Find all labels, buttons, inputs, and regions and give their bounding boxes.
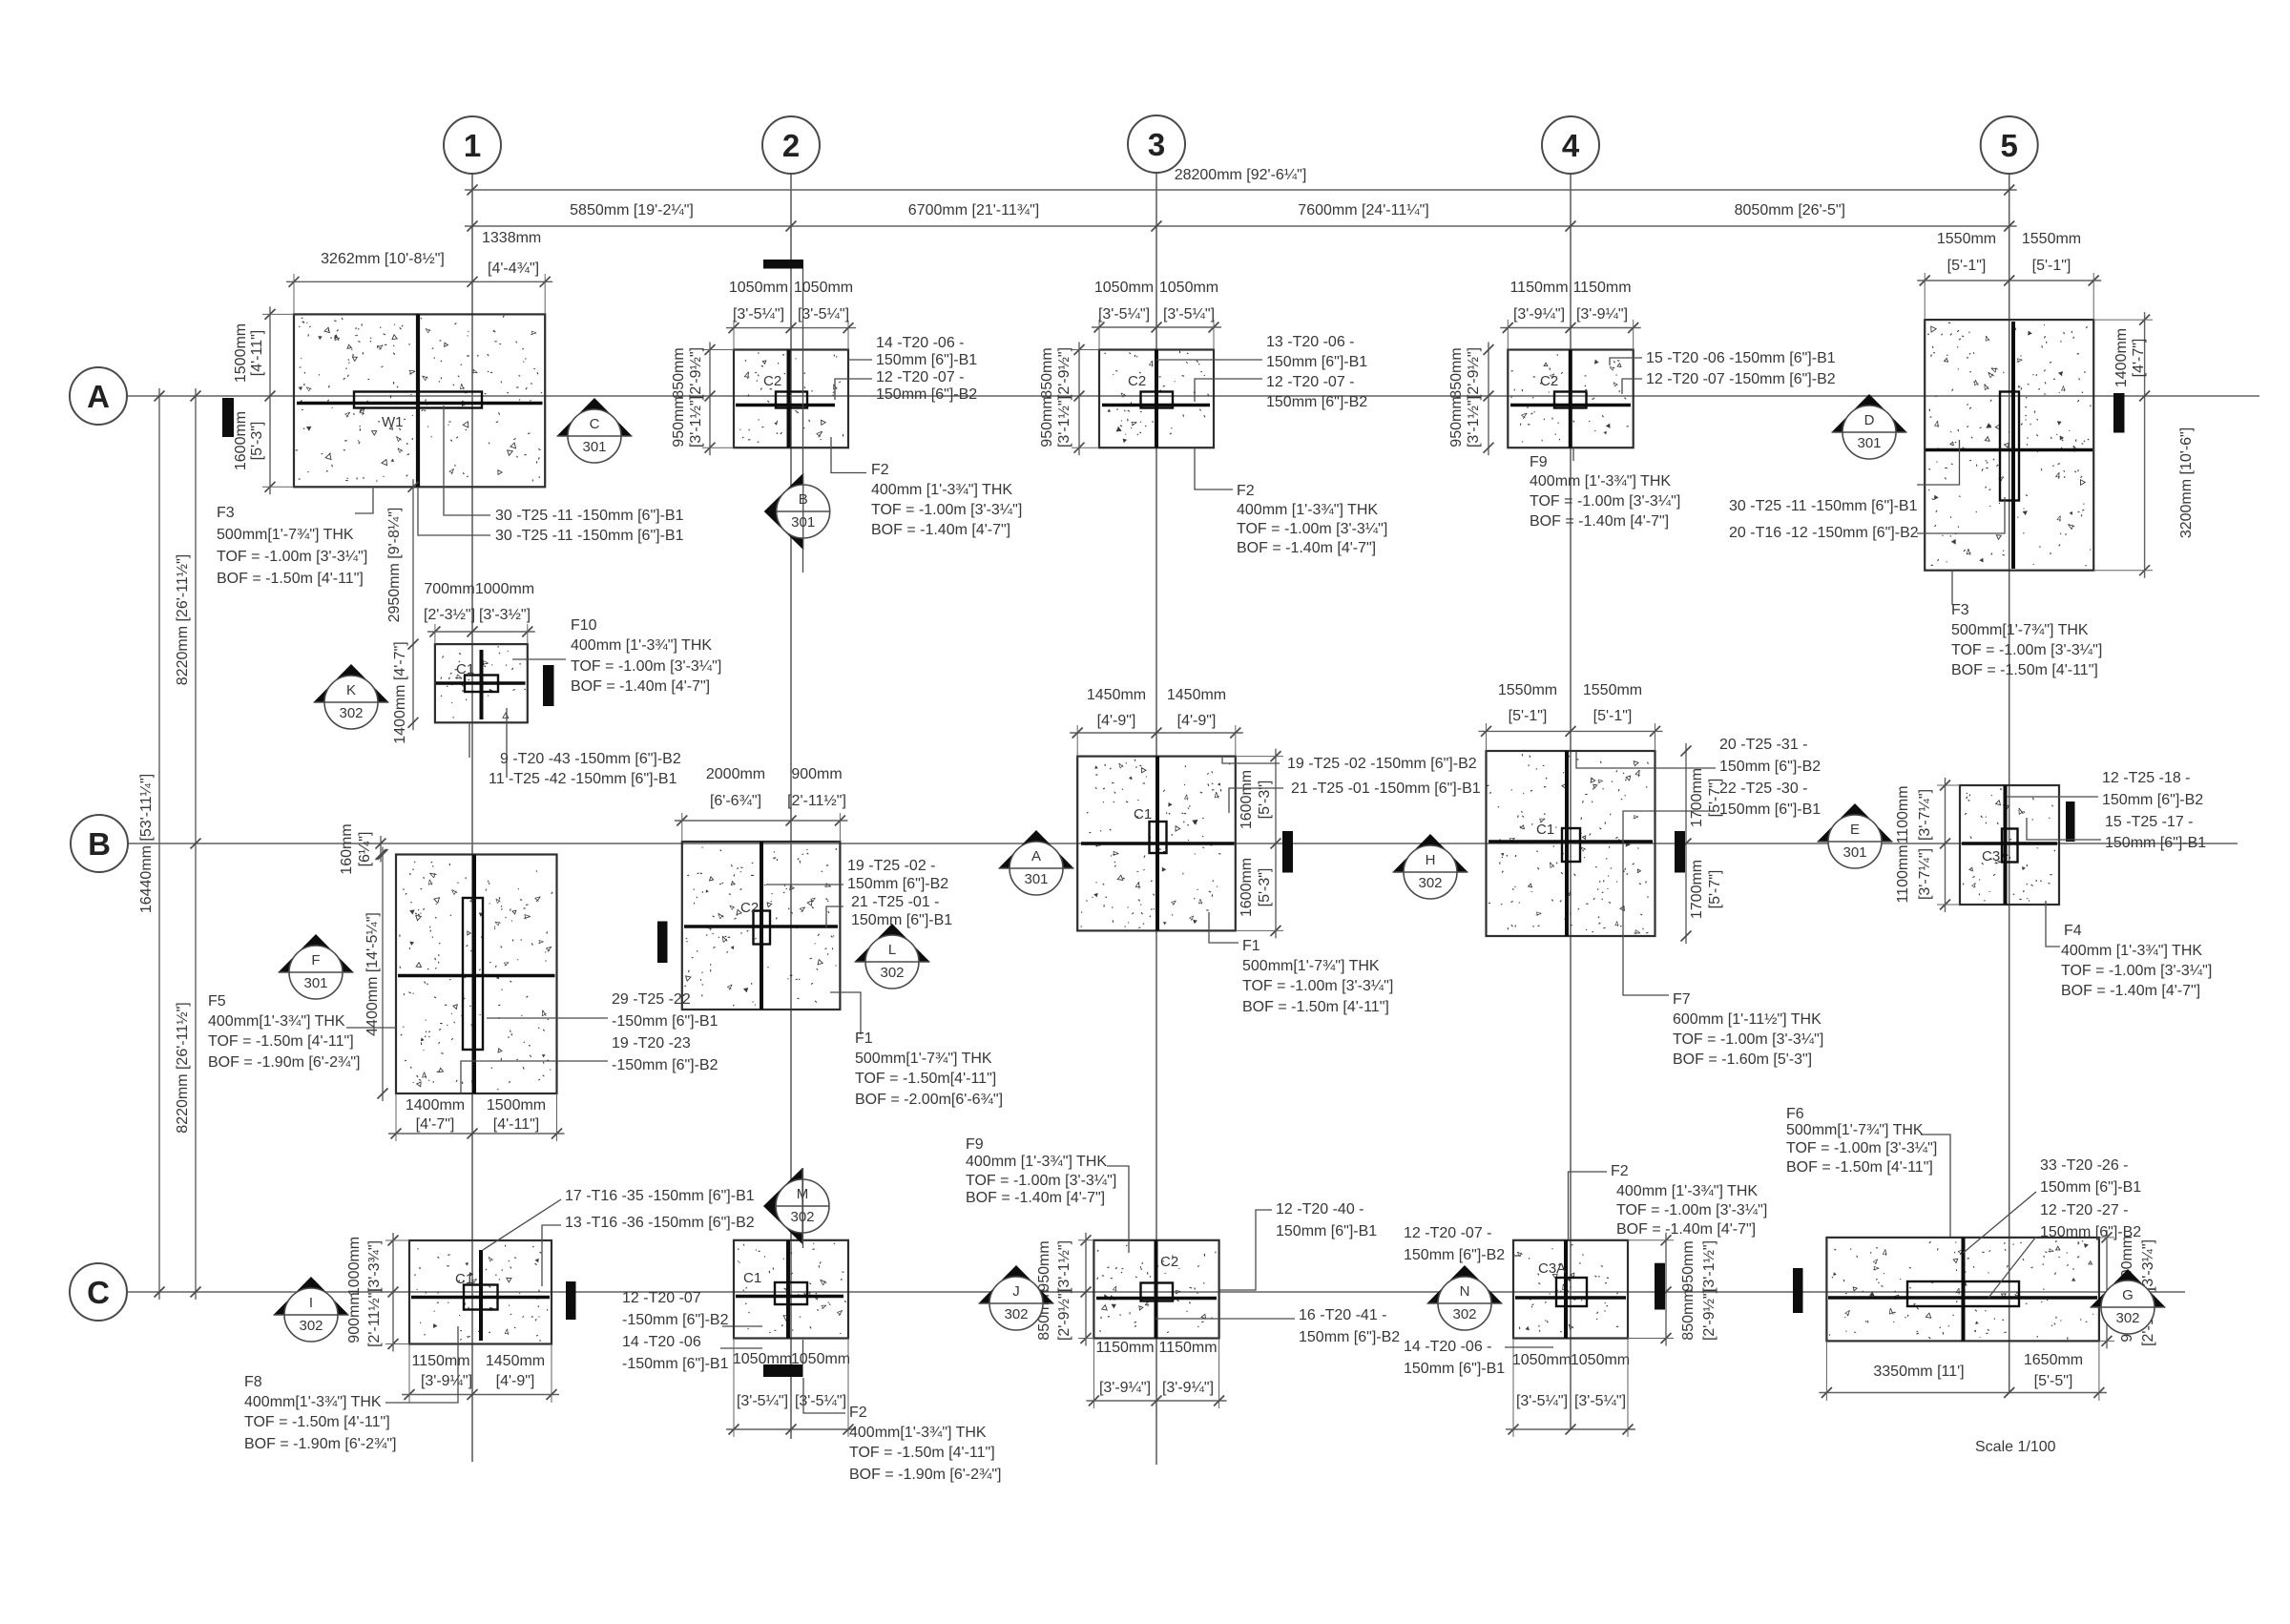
- section cut bar at A5: [2113, 393, 2125, 433]
- svg-text:150mm [6"]-B1: 150mm [6"]-B1: [1404, 1361, 1505, 1377]
- svg-text:H: H: [1426, 852, 1436, 868]
- svg-text:A: A: [1031, 848, 1041, 864]
- section marker E/301: [1818, 803, 1893, 842]
- svg-text:1050mm: 1050mm: [1159, 280, 1218, 296]
- rebar heavy at B5: [1962, 842, 2057, 844]
- svg-text:[3'-5¼"]: [3'-5¼"]: [733, 306, 784, 323]
- column C2 at A2: [776, 392, 807, 408]
- leader 20-T25 B4: [1576, 752, 1716, 768]
- rebar heavy at B3: [1081, 842, 1235, 845]
- grid bubble B: [71, 815, 128, 872]
- section cut bar at F6: [1793, 1268, 1803, 1313]
- svg-text:TOF = -1.00m [3'-3¼"]: TOF = -1.00m [3'-3¼"]: [1242, 978, 1393, 994]
- svg-text:TOF = -1.50m [4'-11"]: TOF = -1.50m [4'-11"]: [208, 1033, 354, 1050]
- svg-text:9 -T20 -43 -150mm [6"]-B2: 9 -T20 -43 -150mm [6"]-B2: [500, 751, 681, 767]
- grid bubble C: [70, 1263, 127, 1321]
- svg-text:F2: F2: [1237, 483, 1255, 499]
- svg-text:[2'-11½"]: [2'-11½"]: [787, 793, 846, 809]
- svg-text:500mm[1'-7¾"] THK: 500mm[1'-7¾"] THK: [1951, 622, 2089, 638]
- svg-text:400mm [1'-3¾"] THK: 400mm [1'-3¾"] THK: [2061, 943, 2202, 959]
- svg-text:12 -T20 -27 -: 12 -T20 -27 -: [2040, 1202, 2128, 1218]
- svg-text:C1: C1: [455, 1271, 473, 1287]
- grid bubble 2: [762, 116, 820, 174]
- svg-text:TOF = -1.00m [3'-3¼"]: TOF = -1.00m [3'-3¼"]: [1530, 493, 1680, 510]
- note F2 at A2: [831, 437, 866, 473]
- column axis heavy at C2c: [786, 1240, 790, 1339]
- svg-text:3262mm [10'-8½"]: 3262mm [10'-8½"]: [321, 251, 445, 267]
- footing F7 at B4: [1487, 751, 1655, 936]
- svg-text:BOF = -1.90m [6'-2¾"]: BOF = -1.90m [6'-2¾"]: [244, 1436, 396, 1452]
- svg-text:I: I: [309, 1295, 313, 1311]
- svg-text:[5'-7"]: [5'-7"]: [1707, 870, 1723, 909]
- leader 14-T20 C2c: [720, 1347, 762, 1349]
- svg-text:[3'-1½"]: [3'-1½"]: [688, 396, 704, 448]
- svg-text:4: 4: [822, 883, 832, 887]
- leader 29-T25 F5: [487, 1017, 608, 1019]
- svg-text:F9: F9: [966, 1136, 984, 1153]
- grid bubble A: [70, 367, 127, 425]
- svg-text:302: 302: [299, 1318, 323, 1334]
- leader 12-T25 B5: [2007, 796, 2098, 798]
- leader 13-T20 A3: [1156, 359, 1262, 361]
- svg-text:Scale 1/100: Scale 1/100: [1975, 1439, 2056, 1455]
- grid line 3: [1155, 174, 1157, 1465]
- svg-text:1050mm: 1050mm: [1571, 1352, 1630, 1368]
- leader 12-T20 C4c: [1513, 1255, 1521, 1257]
- svg-text:[4'-7"]: [4'-7"]: [416, 1116, 455, 1133]
- svg-text:1650mm: 1650mm: [2024, 1352, 2083, 1368]
- footing F2 at A3: [1099, 350, 1214, 448]
- svg-text:TOF = -1.50m[4'-11"]: TOF = -1.50m[4'-11"]: [855, 1071, 996, 1087]
- dim 1550/1550 at B4: [1479, 730, 1663, 732]
- svg-text:150mm [6"]-B1: 150mm [6"]-B1: [876, 352, 977, 368]
- svg-text:150mm [6"]-B1: 150mm [6"]-B1: [851, 912, 952, 928]
- dim 1150/1150 at A4: [1500, 327, 1640, 329]
- svg-text:1450mm: 1450mm: [486, 1353, 545, 1369]
- svg-text:[4'-11"]: [4'-11"]: [493, 1116, 539, 1133]
- svg-text:400mm [1'-3¾"] THK: 400mm [1'-3¾"] THK: [571, 637, 712, 654]
- dim 1050/1050 at A2: [726, 327, 856, 329]
- svg-text:14 -T20 -06: 14 -T20 -06: [622, 1334, 701, 1350]
- leader 12-T20 C3c: [1219, 1210, 1272, 1290]
- section marker H/302: [1393, 834, 1468, 872]
- svg-text:150mm [6"]-B2: 150mm [6"]-B2: [2040, 1224, 2141, 1240]
- dim 850/950 at A3: [1078, 343, 1080, 456]
- svg-text:30 -T25 -11 -150mm [6"]-B1: 30 -T25 -11 -150mm [6"]-B1: [495, 528, 684, 544]
- section line M lower: [802, 1340, 804, 1364]
- svg-text:12 -T20 -07 -150mm [6"]-B2: 12 -T20 -07 -150mm [6"]-B2: [1646, 371, 1836, 387]
- svg-text:29 -T25 -22: 29 -T25 -22: [612, 991, 691, 1008]
- svg-text:12 -T25 -18 -: 12 -T25 -18 -: [2102, 770, 2190, 786]
- svg-text:3: 3: [1148, 127, 1165, 162]
- svg-text:400mm [1'-3¾"] THK: 400mm [1'-3¾"] THK: [1530, 473, 1671, 489]
- svg-text:12 -T20 -07 -: 12 -T20 -07 -: [1266, 374, 1354, 390]
- svg-text:C1: C1: [1536, 822, 1554, 838]
- svg-text:[4'-7"]: [4'-7"]: [2131, 339, 2147, 378]
- svg-text:400mm [1'-3¾"] THK: 400mm [1'-3¾"] THK: [1616, 1183, 1758, 1199]
- footing F2 at C2c: [734, 1240, 848, 1339]
- svg-text:[5'-5"]: [5'-5"]: [2034, 1373, 2073, 1389]
- column axis heavy at F10: [480, 650, 484, 719]
- column C1 at C2c: [775, 1282, 807, 1304]
- svg-text:1550mm: 1550mm: [1498, 682, 1557, 698]
- note F5: [346, 1027, 396, 1029]
- dim 850/950 at A4: [1488, 343, 1489, 456]
- column C3 at B5: [2002, 829, 2018, 863]
- svg-text:BOF = -1.50m [4'-11"]: BOF = -1.50m [4'-11"]: [1242, 999, 1389, 1015]
- svg-text:850mm: 850mm: [671, 347, 687, 398]
- svg-text:-150mm [6"]-B1: -150mm [6"]-B1: [612, 1013, 718, 1030]
- svg-text:30 -T25 -11 -150mm [6"]-B1: 30 -T25 -11 -150mm [6"]-B1: [1729, 498, 1918, 514]
- svg-text:[4'-9"]: [4'-9"]: [496, 1373, 535, 1389]
- leader 12-T20 A2: [835, 379, 872, 400]
- svg-text:950mm: 950mm: [1039, 396, 1055, 447]
- overall dim 16440mm: [158, 388, 160, 1300]
- svg-text:C2: C2: [1540, 373, 1558, 389]
- svg-text:[3'-9¼"]: [3'-9¼"]: [421, 1373, 472, 1389]
- note F9 at C3c: [1107, 1166, 1129, 1253]
- row dims 8220mm: [195, 388, 197, 1300]
- svg-text:-150mm [6"]-B2: -150mm [6"]-B2: [612, 1057, 718, 1073]
- svg-text:E: E: [1850, 822, 1860, 838]
- dim 1450/1450 at B3: [1070, 732, 1243, 734]
- column C1 at F10: [465, 676, 498, 693]
- svg-text:[4'-9"]: [4'-9"]: [1177, 713, 1217, 729]
- svg-text:TOF = -1.50m [4'-11"]: TOF = -1.50m [4'-11"]: [244, 1414, 390, 1430]
- svg-text:[3'-1½"]: [3'-1½"]: [1056, 396, 1072, 448]
- svg-text:850mm: 850mm: [1039, 347, 1055, 398]
- column axis heavy at B5: [2004, 785, 2008, 905]
- svg-text:W1: W1: [382, 414, 404, 430]
- column axis heavy at B3: [1155, 757, 1159, 931]
- svg-text:F7: F7: [1673, 991, 1691, 1008]
- wall at F5: [463, 898, 483, 1050]
- grid bubble 4: [1542, 116, 1599, 174]
- svg-text:C1: C1: [456, 661, 474, 677]
- svg-text:302: 302: [1452, 1306, 1476, 1322]
- rebar heavy at F5: [398, 974, 555, 978]
- leader 30-T25 A5: [1917, 440, 1960, 485]
- leader 19-T25 B2: [766, 884, 843, 885]
- svg-text:301: 301: [582, 439, 606, 455]
- rebar heavy at F6: [1828, 1296, 2097, 1300]
- column axis heavy at A5: [2011, 322, 2015, 569]
- svg-text:C: C: [87, 1275, 110, 1310]
- section marker I/302: [274, 1277, 349, 1315]
- svg-text:BOF = -1.90m [6'-2¾"]: BOF = -1.90m [6'-2¾"]: [849, 1467, 1001, 1483]
- svg-text:1150mm: 1150mm: [1572, 280, 1631, 296]
- svg-text:BOF = -1.50m [4'-11"]: BOF = -1.50m [4'-11"]: [217, 571, 364, 587]
- svg-text:BOF = -1.40m [4'-7"]: BOF = -1.40m [4'-7"]: [1616, 1221, 1756, 1238]
- svg-text:BOF = -1.50m [4'-11"]: BOF = -1.50m [4'-11"]: [1786, 1159, 1933, 1176]
- footing F1 at B3: [1077, 757, 1236, 931]
- svg-text:[4'-11"]: [4'-11"]: [249, 330, 265, 376]
- svg-text:4400mm [14'-5¼"]: 4400mm [14'-5¼"]: [364, 912, 381, 1036]
- svg-text:3350mm [11']: 3350mm [11']: [1873, 1364, 1964, 1380]
- leader 11-T25 F10: [506, 708, 508, 778]
- dim 1150/1450 at F8: [402, 1394, 559, 1396]
- dim 1550/1550 at A5: [1917, 280, 2101, 281]
- column axis heavy at C4c: [1564, 1240, 1568, 1339]
- svg-text:19 -T25 -02 -150mm [6"]-B2: 19 -T25 -02 -150mm [6"]-B2: [1287, 756, 1477, 772]
- svg-text:150mm [6"]-B2: 150mm [6"]-B2: [847, 876, 948, 892]
- section marker G/302: [2091, 1269, 2166, 1307]
- svg-text:1600mm: 1600mm: [1239, 858, 1255, 917]
- svg-text:BOF = -1.40m [4'-7"]: BOF = -1.40m [4'-7"]: [871, 522, 1010, 538]
- svg-text:1100mm: 1100mm: [1895, 844, 1911, 903]
- svg-text:500mm[1'-7¾"] THK: 500mm[1'-7¾"] THK: [855, 1051, 992, 1067]
- leader 13-T16 F8: [542, 1225, 561, 1286]
- svg-text:1: 1: [464, 128, 481, 163]
- column C3A at C4c: [1556, 1278, 1587, 1306]
- svg-text:150mm [6"]-B2: 150mm [6"]-B2: [876, 386, 977, 403]
- svg-text:1700mm: 1700mm: [1689, 768, 1705, 827]
- rebar heavy at C2c: [736, 1295, 843, 1298]
- dim 1500/1600 at A1: [269, 306, 271, 494]
- svg-text:12 -T20 -07: 12 -T20 -07: [622, 1290, 701, 1306]
- svg-text:4: 4: [1149, 360, 1154, 370]
- rebar heavy at B4: [1488, 840, 1653, 843]
- svg-text:[3'-9¼"]: [3'-9¼"]: [1576, 306, 1628, 323]
- svg-text:950mm: 950mm: [671, 396, 687, 447]
- svg-text:[4'-9"]: [4'-9"]: [1097, 713, 1136, 729]
- svg-text:1050mm: 1050mm: [1094, 280, 1154, 296]
- note F3 at A5: [1951, 571, 1953, 605]
- svg-text:11 -T25 -42 -150mm [6"]-B1: 11 -T25 -42 -150mm [6"]-B1: [489, 771, 677, 787]
- svg-text:400mm [1'-3¾"] THK: 400mm [1'-3¾"] THK: [871, 482, 1012, 498]
- svg-text:160mm: 160mm: [339, 823, 355, 874]
- note F3 at A1: [355, 487, 373, 513]
- grid line 5: [2009, 174, 2010, 1393]
- section marker M/302: [763, 1168, 802, 1244]
- column axis heavy at C3c: [1155, 1240, 1158, 1339]
- svg-text:TOF = -1.50m [4'-11"]: TOF = -1.50m [4'-11"]: [849, 1445, 995, 1461]
- section marker D/301: [1832, 394, 1907, 432]
- dim 2000/900 at B2: [675, 820, 848, 822]
- svg-text:1700mm: 1700mm: [1689, 860, 1705, 919]
- section marker B/301: [764, 473, 803, 550]
- svg-text:[3'-5¼"]: [3'-5¼"]: [798, 306, 849, 323]
- rebar heavy at A2: [736, 404, 835, 406]
- svg-text:400mm [1'-3¾"] THK: 400mm [1'-3¾"] THK: [1237, 502, 1378, 518]
- svg-text:400mm [1'-3¾"] THK: 400mm [1'-3¾"] THK: [966, 1154, 1107, 1170]
- svg-text:21 -T25 -01 -: 21 -T25 -01 -: [851, 894, 939, 910]
- note F2 at A3: [1195, 448, 1233, 489]
- column axis heavy at A4: [1569, 350, 1572, 448]
- dim 1400/1500 at F5: [388, 1133, 565, 1135]
- svg-text:2950mm [9'-8¼"]: 2950mm [9'-8¼"]: [386, 508, 403, 623]
- leader 12-T20 F6: [1988, 1237, 2036, 1298]
- note F9 at A4: [1572, 448, 1574, 461]
- svg-text:[3'-5¼"]: [3'-5¼"]: [737, 1393, 788, 1409]
- svg-text:150mm [6"]-B2: 150mm [6"]-B2: [1299, 1329, 1400, 1345]
- svg-text:16440mm [53'-11¼"]: 16440mm [53'-11¼"]: [138, 774, 155, 913]
- svg-text:F2: F2: [849, 1405, 867, 1421]
- dim 1000/900 at F6: [2106, 1230, 2108, 1349]
- section cut bar at F8: [566, 1281, 576, 1320]
- svg-text:4: 4: [743, 370, 750, 383]
- dim 4400mm at F5: [382, 847, 384, 1102]
- column axis heavy at A3: [1155, 350, 1158, 448]
- svg-text:301: 301: [1857, 435, 1881, 451]
- svg-text:1450mm: 1450mm: [1087, 687, 1146, 703]
- svg-text:1550mm: 1550mm: [1937, 231, 1996, 247]
- svg-text:C2: C2: [1160, 1254, 1178, 1270]
- svg-text:[3'-5¼"]: [3'-5¼"]: [1098, 306, 1150, 323]
- svg-text:BOF = -1.40m [4'-7"]: BOF = -1.40m [4'-7"]: [571, 678, 710, 695]
- leader 22-T25 and F7 B4: [1623, 811, 1716, 995]
- grid bubble 3: [1128, 115, 1185, 173]
- svg-text:[3'-5¼"]: [3'-5¼"]: [1163, 306, 1215, 323]
- svg-text:4: 4: [1135, 880, 1141, 891]
- svg-text:L: L: [888, 942, 896, 958]
- svg-text:K: K: [346, 682, 356, 698]
- svg-text:F1: F1: [1242, 938, 1260, 954]
- svg-text:F2: F2: [871, 462, 889, 478]
- leader 14-T20 C4c: [1505, 1346, 1553, 1348]
- svg-text:150mm [6"]-B2: 150mm [6"]-B2: [1266, 394, 1367, 410]
- leader 14-T20 A2: [848, 359, 872, 361]
- svg-text:400mm[1'-3¾"] THK: 400mm[1'-3¾"] THK: [244, 1394, 382, 1410]
- section line M upper: [802, 1168, 804, 1248]
- column C2 at A4: [1554, 392, 1587, 408]
- svg-text:150mm [6"]-B2: 150mm [6"]-B2: [2102, 792, 2203, 808]
- svg-text:1400mm: 1400mm: [406, 1097, 465, 1114]
- svg-text:[3'-3¼"]: [3'-3¼"]: [2140, 1239, 2156, 1291]
- svg-text:1400mm [4'-7"]: 1400mm [4'-7"]: [392, 641, 408, 743]
- svg-text:5850mm [19'-2¼"]: 5850mm [19'-2¼"]: [570, 202, 694, 219]
- svg-text:33 -T20 -26 -: 33 -T20 -26 -: [2040, 1157, 2128, 1174]
- rebar heavy at C3c: [1096, 1297, 1217, 1300]
- svg-text:C3: C3: [1982, 848, 2000, 864]
- leader 33-T20 F6: [1964, 1192, 2037, 1253]
- svg-text:1600mm: 1600mm: [233, 411, 249, 470]
- column C2 at B2: [754, 911, 771, 945]
- svg-text:150mm [6"]-B1: 150mm [6"]-B1: [1276, 1223, 1377, 1239]
- dim 700/1000 at F10: [427, 631, 535, 633]
- footing F6: [1826, 1238, 2098, 1342]
- svg-text:[2'-9½"]: [2'-9½"]: [1056, 347, 1072, 399]
- rebar line B1 at A1 (heavy): [297, 402, 543, 406]
- column axis heavy at B4: [1565, 751, 1569, 936]
- svg-text:TOF = -1.00m [3'-3¼"]: TOF = -1.00m [3'-3¼"]: [1237, 521, 1387, 537]
- svg-text:150mm [6"]-B2: 150mm [6"]-B2: [1719, 759, 1821, 775]
- rebar heavy at A4: [1510, 404, 1631, 406]
- svg-text:302: 302: [1004, 1306, 1028, 1322]
- leader 19-T20 F5: [461, 1061, 608, 1093]
- section marker L/302: [855, 924, 930, 962]
- svg-text:1500mm: 1500mm: [487, 1097, 546, 1114]
- svg-text:1150mm: 1150mm: [411, 1353, 469, 1369]
- svg-text:G: G: [2122, 1287, 2134, 1303]
- leader 15-T20 A4: [1610, 358, 1642, 365]
- svg-text:150mm [6"]-B1: 150mm [6"]-B1: [1266, 354, 1367, 370]
- section cut bar at A1: [222, 398, 234, 437]
- note F10: [512, 658, 566, 660]
- svg-text:-150mm [6"]-B2: -150mm [6"]-B2: [622, 1312, 729, 1328]
- wall axis heavy at F6: [1962, 1238, 1966, 1342]
- svg-text:500mm[1'-7¾"] THK: 500mm[1'-7¾"] THK: [1786, 1122, 1924, 1138]
- rebar heavy at B2: [684, 925, 838, 927]
- svg-text:3200mm [10'-6"]: 3200mm [10'-6"]: [2178, 427, 2195, 538]
- svg-text:F6: F6: [1786, 1106, 1804, 1122]
- dim 1050/1050 at C2c: [726, 1428, 856, 1430]
- rebar heavy at A5: [1926, 448, 2092, 452]
- section cut bar at B2: [657, 922, 668, 964]
- svg-text:[5'-3"]: [5'-3"]: [249, 422, 265, 461]
- svg-text:BOF = -2.00m[6'-6¾"]: BOF = -2.00m[6'-6¾"]: [855, 1092, 1003, 1108]
- svg-text:500mm[1'-7¾"] THK: 500mm[1'-7¾"] THK: [1242, 958, 1380, 974]
- svg-text:[5'-3"]: [5'-3"]: [1257, 868, 1273, 907]
- svg-text:C1: C1: [743, 1270, 761, 1286]
- svg-text:[2'-3½"]: [2'-3½"]: [424, 607, 475, 623]
- svg-text:1400mm: 1400mm: [2113, 328, 2130, 387]
- svg-text:BOF = -1.40m [4'-7"]: BOF = -1.40m [4'-7"]: [1530, 513, 1669, 530]
- svg-text:16 -T20 -41 -: 16 -T20 -41 -: [1299, 1307, 1386, 1323]
- svg-text:TOF = -1.00m [3'-3¼"]: TOF = -1.00m [3'-3¼"]: [966, 1173, 1116, 1189]
- svg-text:[3'-1½"]: [3'-1½"]: [1056, 1240, 1072, 1292]
- svg-text:302: 302: [339, 705, 363, 721]
- svg-text:28200mm [92'-6¼"]: 28200mm [92'-6¼"]: [1175, 167, 1307, 183]
- svg-text:F9: F9: [1530, 454, 1548, 470]
- svg-text:BOF = -1.90m [6'-2¾"]: BOF = -1.90m [6'-2¾"]: [208, 1054, 360, 1071]
- svg-text:2000mm: 2000mm: [706, 766, 765, 782]
- grid bubble 5: [1981, 116, 2038, 174]
- svg-text:F2: F2: [1611, 1163, 1629, 1179]
- leader 21-T25 B3: [1229, 788, 1283, 813]
- leader B1 label A1: [444, 406, 490, 515]
- svg-text:C2: C2: [740, 900, 759, 916]
- svg-text:B: B: [799, 491, 808, 508]
- svg-text:[3'-9¼"]: [3'-9¼"]: [1162, 1380, 1214, 1396]
- svg-text:C3A: C3A: [1538, 1260, 1566, 1277]
- column C1 at B4: [1562, 828, 1580, 862]
- leader 17-T16 F8: [483, 1199, 561, 1250]
- svg-text:[5'-3"]: [5'-3"]: [1257, 781, 1273, 820]
- wall axis heavy at F5: [472, 855, 476, 1093]
- svg-text:[2'-9½"]: [2'-9½"]: [1466, 347, 1482, 399]
- footing F10 near K: [435, 644, 528, 722]
- svg-text:C1: C1: [1134, 806, 1152, 822]
- svg-text:F10: F10: [571, 617, 597, 634]
- svg-text:30 -T25 -11 -150mm [6"]-B1: 30 -T25 -11 -150mm [6"]-B1: [495, 508, 684, 524]
- svg-text:[3'-7¼"]: [3'-7¼"]: [1917, 848, 1933, 900]
- grid line A: [127, 395, 2259, 397]
- rebar heavy at C4c: [1515, 1296, 1626, 1299]
- svg-text:J: J: [1012, 1283, 1020, 1300]
- svg-text:B: B: [88, 826, 111, 862]
- leader 9-T20 F10: [468, 722, 470, 758]
- svg-text:22 -T25 -30 -: 22 -T25 -30 -: [1719, 781, 1807, 797]
- wall W1: [354, 392, 482, 408]
- dim 160mm at F5: [380, 836, 382, 863]
- svg-text:301: 301: [791, 514, 815, 531]
- svg-text:19 -T25 -02 -: 19 -T25 -02 -: [847, 858, 935, 874]
- column C2 at C3c: [1141, 1283, 1174, 1301]
- overall dim 28200mm: [465, 189, 2017, 191]
- svg-text:D: D: [1864, 412, 1875, 428]
- svg-text:13 -T16 -36 -150mm [6"]-B2: 13 -T16 -36 -150mm [6"]-B2: [565, 1215, 755, 1231]
- svg-text:150mm [6"]-B2: 150mm [6"]-B2: [1404, 1247, 1505, 1263]
- section marker N/302: [1427, 1265, 1503, 1303]
- svg-text:1550mm: 1550mm: [2022, 231, 2081, 247]
- svg-text:[3'-1½"]: [3'-1½"]: [1466, 396, 1482, 448]
- dim 1600/1600 at B3: [1275, 749, 1277, 939]
- svg-text:13 -T20 -06 -: 13 -T20 -06 -: [1266, 334, 1354, 350]
- svg-text:[2'-9½"]: [2'-9½"]: [1701, 1289, 1717, 1341]
- svg-text:1150mm: 1150mm: [1158, 1340, 1217, 1356]
- svg-text:17 -T16 -35 -150mm [6"]-B1: 17 -T16 -35 -150mm [6"]-B1: [565, 1188, 755, 1204]
